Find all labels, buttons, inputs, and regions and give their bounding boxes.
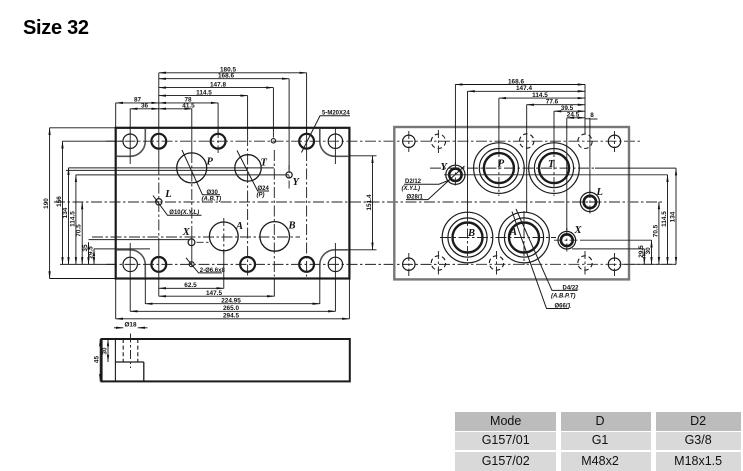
port P (177, 153, 207, 183)
port L outer (580, 192, 599, 211)
dim texts bottom (184, 282, 241, 320)
port B thread (448, 218, 487, 257)
extension line second P-T row (66, 169, 247, 171)
ext row plate bottom left (50, 278, 116, 280)
left view dimensions (43, 67, 376, 320)
ext col T up (553, 111, 555, 143)
hidden bolt hole top 2 (520, 134, 534, 148)
centerline col T (247, 135, 249, 277)
dim 168.6 right view (455, 84, 585, 86)
ext col X up (191, 109, 193, 128)
hidden hole left edge (122, 339, 124, 362)
bolt hole M20 top 3 (211, 134, 226, 149)
dim dia18 line (114, 327, 123, 329)
port X (188, 239, 195, 246)
centerline bottom row (106, 263, 676, 265)
centerline top row (106, 140, 641, 142)
port T spotface (529, 143, 580, 194)
dim 134 vertical (68, 168, 70, 265)
corner hole bottom-left (403, 258, 415, 270)
dim 114.5 right view vertical (667, 175, 669, 264)
ext col hole2 down (158, 279, 160, 297)
hidden hole right edge (137, 339, 139, 362)
ext bottom row to right dims (622, 263, 676, 265)
centerline col B (273, 150, 275, 277)
small hole top row (271, 139, 275, 143)
corner hole bottom-right (328, 257, 342, 271)
side step horizontal (115, 361, 143, 363)
ext col relief left down (144, 279, 146, 304)
pin hole 2-dia6.6 (189, 262, 194, 267)
centerline col hole5 (306, 128, 308, 150)
ext Y row (444, 174, 668, 176)
baseline under left dim stack (60, 263, 116, 265)
dim 8 tail (590, 118, 598, 120)
hidden bolt hole top 3 (578, 134, 592, 148)
dim 114.5 vertical (75, 175, 77, 265)
ext row top holes left (63, 140, 124, 142)
centerline col B (467, 211, 469, 265)
dim 41.5 (159, 108, 192, 110)
centerline P-T row (430, 167, 595, 169)
leader Y to dia28 label (406, 166, 465, 200)
centerline col hidden br (584, 251, 586, 275)
dim 29.5 vertical (93, 249, 95, 265)
centerline col corner holes right (334, 129, 336, 165)
centerline col hole3 (217, 130, 219, 153)
port A spotface (499, 212, 550, 263)
dim 190 vertical (49, 128, 51, 279)
hidden hole centerline (130, 334, 132, 369)
centerline col hidden tl (437, 130, 439, 153)
port P bore (484, 153, 514, 183)
centerline col hidden bm (496, 251, 498, 275)
ext col hole5 up (306, 73, 308, 134)
hidden bolt hole bottom 3 (578, 256, 592, 270)
leader L to dia10 label (153, 196, 202, 216)
port B bore (453, 223, 483, 253)
ext col relief right down (319, 279, 321, 304)
leader T to dia24 label (237, 151, 269, 192)
centerline col A (223, 218, 225, 254)
dim 114.5 right view (499, 97, 585, 99)
extension line Y row (76, 174, 289, 176)
ext col hidden top3 up (584, 85, 586, 135)
ext col Y up (454, 85, 456, 165)
ext col plate left up (115, 103, 117, 128)
dim 24.5 right view (567, 117, 585, 119)
corner hole bottom-left (123, 257, 137, 271)
port Y bore (449, 169, 461, 181)
centerline col corner tr (614, 131, 616, 152)
side step vertical left (114, 339, 116, 381)
dim 151.4 vertical (372, 156, 374, 250)
ext col P up (498, 98, 500, 143)
dim 29.5 right view (643, 249, 645, 264)
dim 265.0 (130, 310, 335, 312)
port T (235, 155, 261, 181)
dim 78 (159, 102, 218, 104)
leader A to dia66 label (512, 212, 569, 309)
side bar outline (102, 339, 350, 381)
ext row plate top left (50, 127, 116, 129)
corner hole top-left (403, 135, 415, 147)
ext col hole3 up (217, 103, 219, 134)
right view dimensions (455, 78, 676, 264)
dim 8 right view (585, 118, 590, 120)
leader hole5 to M20 label (302, 116, 351, 153)
plate outline (116, 128, 350, 279)
centerline col corner tl (408, 131, 410, 152)
port A thread (504, 218, 543, 257)
bolt hole M20 bottom 4 (240, 257, 255, 272)
dim 114.5 (159, 95, 248, 97)
dim 36 (130, 108, 159, 110)
centerline A-B row (92, 236, 300, 238)
label D2/12 XYL (402, 179, 424, 200)
dim 39.5 right view (554, 110, 585, 112)
port B (260, 222, 290, 252)
centerline col L (589, 190, 591, 214)
dim 224.95 (145, 303, 319, 305)
ext col corner left down (129, 279, 131, 312)
ext col A down (223, 252, 225, 288)
centerline col Y (454, 162, 456, 187)
corner hole top-right (608, 135, 620, 147)
dim 156 vertical (62, 141, 64, 264)
ext col L up (589, 118, 591, 192)
right view: port face of subplate (394, 127, 676, 309)
dim texts top (134, 67, 236, 110)
leader Y to D2 label (404, 180, 450, 184)
leader A to D label (516, 209, 578, 290)
plate outline (394, 127, 629, 279)
side dim total height (99, 339, 101, 381)
ext row relief bottom right (349, 249, 376, 251)
dim texts right view side rotated (638, 211, 677, 258)
side step vertical right (143, 362, 145, 381)
ext col T up (247, 96, 249, 135)
centerline col T (553, 142, 555, 196)
port T bore (539, 153, 569, 183)
ext col plate right down (348, 279, 350, 319)
centerline col P X (191, 128, 193, 152)
port B spotface (442, 212, 493, 263)
centerline A-B row (440, 237, 556, 239)
dim 180.5 (159, 72, 307, 74)
centerline middle row (54, 201, 662, 203)
ext col hole2 up (158, 73, 160, 128)
corner relief top-right (320, 129, 349, 157)
port X bore (561, 234, 573, 246)
corner relief bottom-right (320, 250, 349, 278)
ext row relief top right (349, 155, 376, 157)
ext X row to right dims (580, 239, 652, 241)
side view of subplate (94, 322, 350, 382)
hidden bolt hole top 1 (431, 134, 445, 148)
ext col corner up (129, 109, 131, 129)
bolt hole M20 top 5 (299, 134, 314, 149)
ext P-T row to right dims (595, 167, 676, 169)
dim 70.5 right view (658, 202, 660, 264)
ext col B down (273, 279, 275, 297)
corner hole bottom-right (608, 258, 620, 270)
dim 70.5 vertical (81, 202, 83, 264)
side dim step depth (107, 339, 109, 362)
port A bore (509, 223, 539, 253)
centerline col Y (288, 165, 290, 190)
dim 134 right view (675, 168, 677, 264)
port Y (286, 172, 292, 178)
dim 62.5 (159, 287, 224, 289)
ext col small hole up (272, 88, 274, 138)
port P thread (479, 149, 518, 188)
ext col X up (566, 118, 568, 230)
dim 35 vertical (88, 242, 90, 264)
hidden bolt hole bottom 1 (431, 256, 445, 270)
port L (156, 199, 162, 205)
port X outer (558, 231, 576, 249)
port L bore (584, 196, 596, 208)
extension line X row (89, 239, 191, 241)
port P spotface (474, 143, 525, 194)
label D/22 ABPT (551, 285, 579, 309)
title Size 32 (23, 17, 89, 40)
dim texts right view top (508, 78, 594, 119)
bolt hole M20 bottom 2 (151, 257, 166, 272)
stub right of X (197, 241, 212, 243)
centerline col corner holes left (129, 129, 131, 165)
centerline col X (566, 228, 568, 252)
dim texts left side rotated (43, 196, 94, 259)
centerline col hidden bl (437, 251, 439, 275)
dim 294.5 (116, 318, 350, 320)
bolt hole M20 bottom 5 (299, 257, 314, 272)
left view: mounting face of subplate (54, 111, 676, 279)
dim 168.6 (159, 78, 289, 80)
ext 29.5 row right (572, 248, 644, 250)
ext col B up (467, 91, 469, 212)
corner hole top-right (328, 134, 342, 148)
centerline X row (554, 239, 580, 241)
port Y outer (446, 165, 465, 184)
corner relief bottom-left (117, 250, 146, 278)
extension line 29.5 row (94, 248, 150, 250)
corner hole top-left (123, 134, 137, 148)
hidden bolt hole bottom 2 (489, 256, 503, 270)
dim 87 (116, 102, 159, 104)
ext col corner right down (334, 279, 336, 312)
dim 77.6 right view (527, 104, 585, 106)
ext col hidden top2 up (526, 105, 528, 212)
centerline col corner br (614, 253, 616, 276)
dim 147.5 (159, 295, 274, 297)
dim 147.4 right view (468, 90, 586, 92)
ext col plate left down (115, 279, 117, 319)
port A (209, 222, 238, 251)
centerline col A (523, 211, 525, 265)
leader P to dia30 label (182, 150, 220, 195)
centerline col P (498, 142, 500, 196)
bolt hole M20 top 2 (151, 134, 166, 149)
centerline P-T row (69, 167, 275, 169)
leader pin hole label (186, 258, 222, 273)
ext col Y up (288, 79, 290, 170)
centerline col hole2 (158, 128, 160, 164)
corner relief top-left (117, 129, 146, 157)
port T thread (534, 149, 573, 188)
dim 147.8 (159, 87, 274, 89)
dim 30 right view (651, 240, 653, 264)
centerline col corner bl (408, 253, 410, 276)
